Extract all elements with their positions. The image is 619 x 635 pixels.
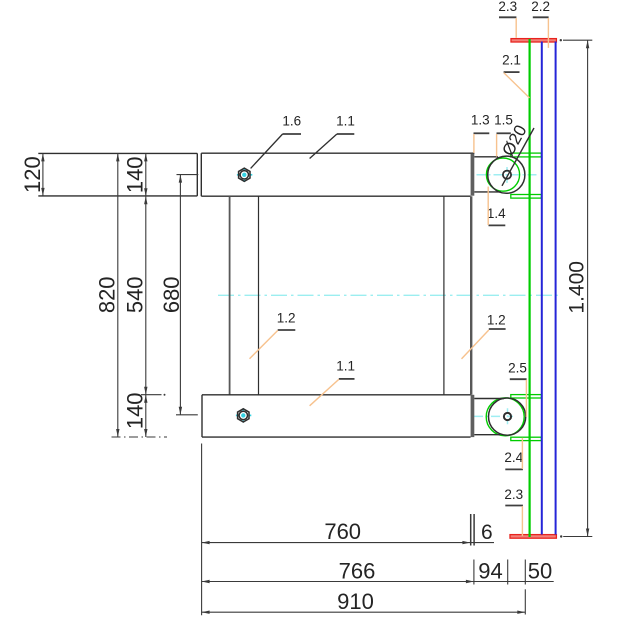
bottom beam 1.1: [202, 395, 471, 437]
svg-text:540: 540: [123, 276, 148, 313]
bolt 1.6 top: [237, 168, 252, 182]
svg-text:1.5: 1.5: [494, 113, 513, 128]
bottom clevis plate: [474, 398, 525, 435]
leader label 1.5: [494, 113, 513, 157]
svg-text:1.3: 1.3: [471, 113, 490, 128]
svg-text:2.3: 2.3: [498, 0, 517, 14]
dimension 540: [123, 153, 148, 437]
dimension 680: [159, 175, 198, 415]
leader label 1.2 left: [250, 310, 296, 358]
svg-text:2.5: 2.5: [508, 360, 527, 375]
leader label 2.5: [508, 360, 527, 417]
blue tube 2.2 line 1: [541, 42, 543, 535]
bottom pivot centerline: [474, 408, 513, 425]
leader label 1.3: [471, 113, 490, 153]
svg-text:1.2: 1.2: [487, 313, 506, 328]
right tie rod 1.2: [444, 196, 471, 395]
svg-text:1.4: 1.4: [487, 206, 506, 221]
svg-text:1.1: 1.1: [336, 114, 355, 129]
bolt top bottom beam: [236, 408, 251, 422]
top pivot centerline: [477, 167, 540, 184]
svg-text:140: 140: [123, 156, 148, 193]
svg-text:680: 680: [159, 276, 184, 313]
bottom beam end plate: [471, 395, 475, 437]
red end plate 2.3 bottom: [510, 535, 556, 539]
dimension 910: [202, 589, 526, 615]
svg-text:2.2: 2.2: [531, 0, 550, 14]
main horizontal centerline: [218, 294, 558, 296]
leader label 2.1: [502, 52, 529, 98]
red end plate 2.3 top: [511, 39, 556, 42]
green clamp bottom pivot upper: [511, 395, 542, 398]
dimension 766 94 50: [202, 558, 554, 584]
svg-text:766: 766: [339, 558, 376, 583]
top pivot pin hole: [503, 171, 511, 179]
top beam 1.1: [201, 153, 474, 196]
green clamp top pivot upper: [511, 153, 542, 157]
leader label 2.4: [504, 438, 523, 470]
dimension 760: [202, 444, 494, 616]
pin diameter callout O20: [498, 122, 534, 186]
top clevis plate 1.4: [474, 156, 525, 193]
leader label 1.1 top: [310, 114, 355, 159]
dimension 120: [20, 153, 45, 196]
green rail 2.1 vertical member: [528, 39, 530, 537]
svg-text:1.2: 1.2: [277, 310, 296, 325]
blue tube 2.2 line 2: [555, 42, 557, 535]
dimension 820: [94, 153, 119, 437]
svg-text:2.3: 2.3: [504, 487, 523, 502]
svg-text:94: 94: [478, 558, 502, 583]
svg-text:2.4: 2.4: [504, 450, 523, 465]
top beam end plate: [471, 154, 475, 196]
svg-text:820: 820: [94, 276, 119, 313]
svg-text:910: 910: [337, 589, 374, 614]
green circle top pivot: [486, 158, 519, 191]
leader label 2.3 top: [498, 0, 517, 38]
dimension 1400: [560, 39, 593, 538]
svg-text:120: 120: [20, 156, 45, 193]
leader label 1.1 bottom: [310, 359, 355, 406]
left stub beam: [38, 153, 197, 196]
svg-text:760: 760: [324, 519, 361, 544]
green clamp top pivot lower: [511, 195, 542, 199]
svg-text:1.400: 1.400: [565, 261, 588, 314]
dimension 140 top: [123, 153, 148, 196]
bottom pivot pin hole: [504, 413, 511, 420]
left tie rod 1.2: [230, 196, 259, 395]
dash-dot extension at beam bottom edge: [112, 436, 168, 438]
leader label 2.3 bottom: [504, 487, 523, 536]
svg-text:1.1: 1.1: [336, 359, 355, 374]
extension tick at 540 bottom: [141, 394, 166, 396]
leader label 2.2 top: [531, 0, 550, 48]
svg-text:6: 6: [481, 521, 493, 544]
leader label 1.6: [251, 114, 302, 169]
svg-text:2.1: 2.1: [502, 52, 521, 67]
green circle bottom pivot: [486, 398, 524, 436]
green clamp bottom pivot lower: [511, 437, 542, 440]
svg-text:1.6: 1.6: [282, 114, 301, 129]
leader label 1.2 right: [462, 313, 506, 359]
dimension 140 bottom: [123, 392, 148, 437]
svg-text:50: 50: [528, 558, 552, 583]
leader label 1.4: [487, 187, 506, 226]
svg-text:140: 140: [123, 392, 148, 429]
